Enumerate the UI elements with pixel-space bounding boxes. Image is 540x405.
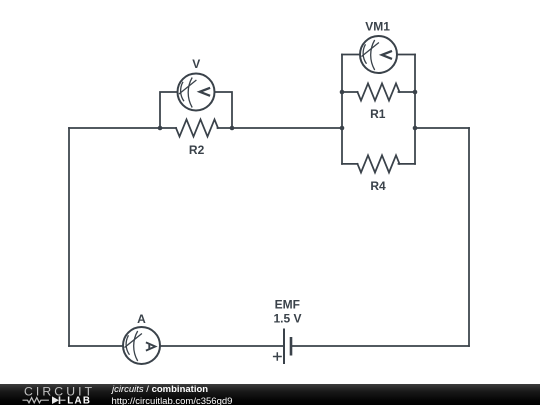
resistor R2 bbox=[176, 119, 218, 136]
node R2 left bbox=[158, 126, 163, 131]
svg-text:R2: R2 bbox=[189, 143, 205, 157]
voltmeter V bbox=[178, 74, 215, 111]
battery plus sign bbox=[273, 352, 282, 361]
wire V-meter left stub bbox=[160, 92, 178, 128]
battery long plate bbox=[283, 329, 285, 365]
node parallel right top bbox=[413, 90, 418, 95]
node junction dots bbox=[158, 90, 418, 131]
svg-text:1.5 V: 1.5 V bbox=[273, 311, 301, 325]
svg-text:A: A bbox=[137, 312, 146, 326]
svg-text:LAB: LAB bbox=[67, 396, 91, 405]
voltmeter VM1 bbox=[360, 36, 397, 73]
svg-text:R4: R4 bbox=[370, 179, 386, 193]
svg-text:V: V bbox=[192, 57, 200, 71]
node R2 right bbox=[230, 126, 235, 131]
resistor R1 bbox=[358, 83, 400, 100]
node parallel left mid bbox=[340, 126, 345, 131]
wire bottom-left to ammeter bbox=[69, 345, 123, 347]
wire R1 left stub bbox=[342, 91, 358, 93]
footer title text bbox=[112, 385, 208, 395]
resistor R4 bbox=[358, 155, 400, 172]
logo diode bbox=[52, 396, 59, 404]
wire top-left horizontal (left rail to R2) bbox=[69, 127, 176, 129]
wire parallel block output to right rail bbox=[415, 127, 469, 129]
wire battery to bottom-right corner bbox=[291, 345, 469, 347]
wire R2 to parallel block bbox=[218, 127, 343, 129]
wire VM1 right stub bbox=[397, 54, 415, 56]
logo waveform resistor bbox=[23, 398, 49, 403]
battery short plate bbox=[290, 337, 293, 356]
wire right vertical rail bbox=[468, 128, 470, 346]
wire R1 right stub bbox=[399, 91, 416, 93]
svg-text:VM1: VM1 bbox=[365, 20, 390, 34]
node parallel right mid bbox=[413, 126, 418, 131]
svg-text:R1: R1 bbox=[370, 107, 386, 121]
battery EMF bbox=[273, 329, 291, 365]
wire ammeter to battery bbox=[160, 345, 284, 347]
node parallel left top bbox=[340, 90, 345, 95]
wire R4 right stub bbox=[399, 163, 416, 165]
wire V-meter right stub bbox=[215, 92, 233, 128]
footer url text bbox=[112, 397, 233, 405]
ammeter A bbox=[123, 327, 160, 364]
wire left vertical rail bbox=[68, 128, 70, 346]
footer bar bbox=[0, 384, 540, 405]
wire VM1 left stub bbox=[342, 54, 360, 56]
svg-text:EMF: EMF bbox=[275, 297, 300, 311]
wire parallel block right rail bbox=[414, 55, 416, 164]
wire parallel block left rail bbox=[341, 55, 343, 164]
wire R4 left stub bbox=[342, 163, 358, 165]
